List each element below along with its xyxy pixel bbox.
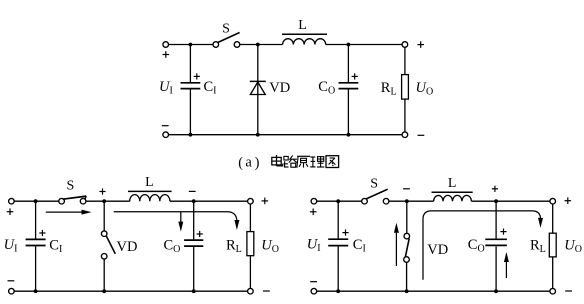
svg-text:S: S (67, 179, 75, 194)
svg-text:UI: UI (307, 236, 321, 254)
svg-text:L: L (145, 175, 154, 190)
svg-text:UO: UO (261, 237, 279, 255)
svg-text:a: a (245, 155, 252, 171)
svg-text:L: L (298, 18, 307, 33)
svg-text:VD: VD (427, 242, 448, 258)
svg-text:S: S (222, 22, 230, 37)
svg-text:VD: VD (117, 239, 138, 255)
svg-text:CO: CO (318, 79, 335, 97)
svg-text:CO: CO (164, 238, 181, 256)
svg-text:RL: RL (226, 237, 242, 255)
svg-text:(: ( (238, 155, 243, 171)
svg-text:CI: CI (49, 237, 62, 255)
svg-text:CI: CI (353, 237, 366, 255)
svg-text:L: L (448, 176, 457, 191)
svg-text:UO: UO (564, 237, 582, 255)
svg-text:CI: CI (204, 79, 217, 97)
svg-text:UO: UO (416, 80, 434, 98)
svg-text:UI: UI (4, 237, 18, 255)
svg-text:): ) (255, 155, 260, 171)
svg-text:RL: RL (530, 237, 546, 255)
svg-text:S: S (370, 176, 378, 191)
svg-text:RL: RL (381, 80, 397, 98)
svg-text:CO: CO (468, 237, 485, 255)
svg-text:UI: UI (159, 79, 173, 97)
svg-text:VD: VD (269, 80, 290, 96)
